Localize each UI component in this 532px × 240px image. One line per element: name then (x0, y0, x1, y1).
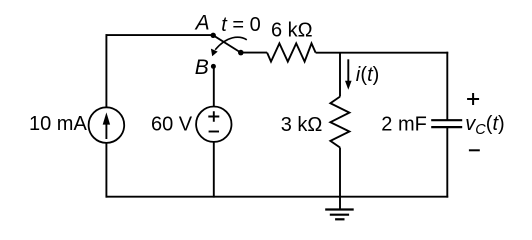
switch blade (A to pivot) (213, 35, 241, 52)
capacitor polarity minus (469, 149, 480, 151)
voltage source plus sign (208, 111, 219, 122)
wire right vertical upper (top corner to capacitor) (446, 52, 448, 120)
resistor R1 6 kOhm zigzag (267, 43, 316, 61)
ground stem (339, 197, 341, 210)
node A (211, 33, 216, 38)
svg-text:t = 0: t = 0 (221, 14, 260, 36)
current arrow i(t) (345, 59, 352, 90)
wire node B to voltage source (213, 67, 215, 107)
voltage source V1 circle (196, 107, 231, 142)
node B (211, 64, 216, 69)
wire right vertical lower (capacitor to bottom corner) (446, 127, 448, 198)
svg-text:vC(t): vC(t) (465, 113, 504, 138)
svg-text:(t): (t) (360, 64, 379, 86)
svg-text:2 mF: 2 mF (381, 113, 427, 135)
wire bottom horizontal (106, 196, 449, 198)
svg-text:3 kΩ: 3 kΩ (281, 114, 323, 136)
current source I1 circle (89, 107, 125, 143)
switch pivot node (238, 50, 244, 56)
svg-text:B: B (195, 56, 209, 79)
current source arrow (103, 112, 110, 139)
wire left vertical lower (current source to bottom corner) (105, 143, 107, 198)
wire voltage source to bottom wire (213, 142, 215, 198)
wire switch pivot to resistor R1 (241, 52, 267, 54)
capacitor C1 plates (431, 120, 462, 127)
svg-text:6 kΩ: 6 kΩ (271, 20, 313, 42)
ground symbol (325, 210, 354, 220)
svg-text:10 mA: 10 mA (29, 113, 87, 135)
wire top-left horizontal (corner to switch contact A) (106, 34, 212, 36)
svg-text:60 V: 60 V (151, 114, 193, 136)
switch motion arc with arrowhead (211, 37, 247, 56)
wire top wire junction down to resistor R2 (339, 53, 341, 97)
voltage source minus sign (209, 131, 219, 133)
capacitor polarity plus (467, 93, 479, 105)
svg-text:A: A (194, 12, 210, 35)
wire resistor R1 to top-right corner (316, 52, 449, 54)
wire left vertical upper (corner down to current source) (105, 34, 107, 107)
resistor R2 3 kOhm zigzag (330, 97, 349, 148)
wire resistor R2 to bottom wire (339, 148, 341, 197)
